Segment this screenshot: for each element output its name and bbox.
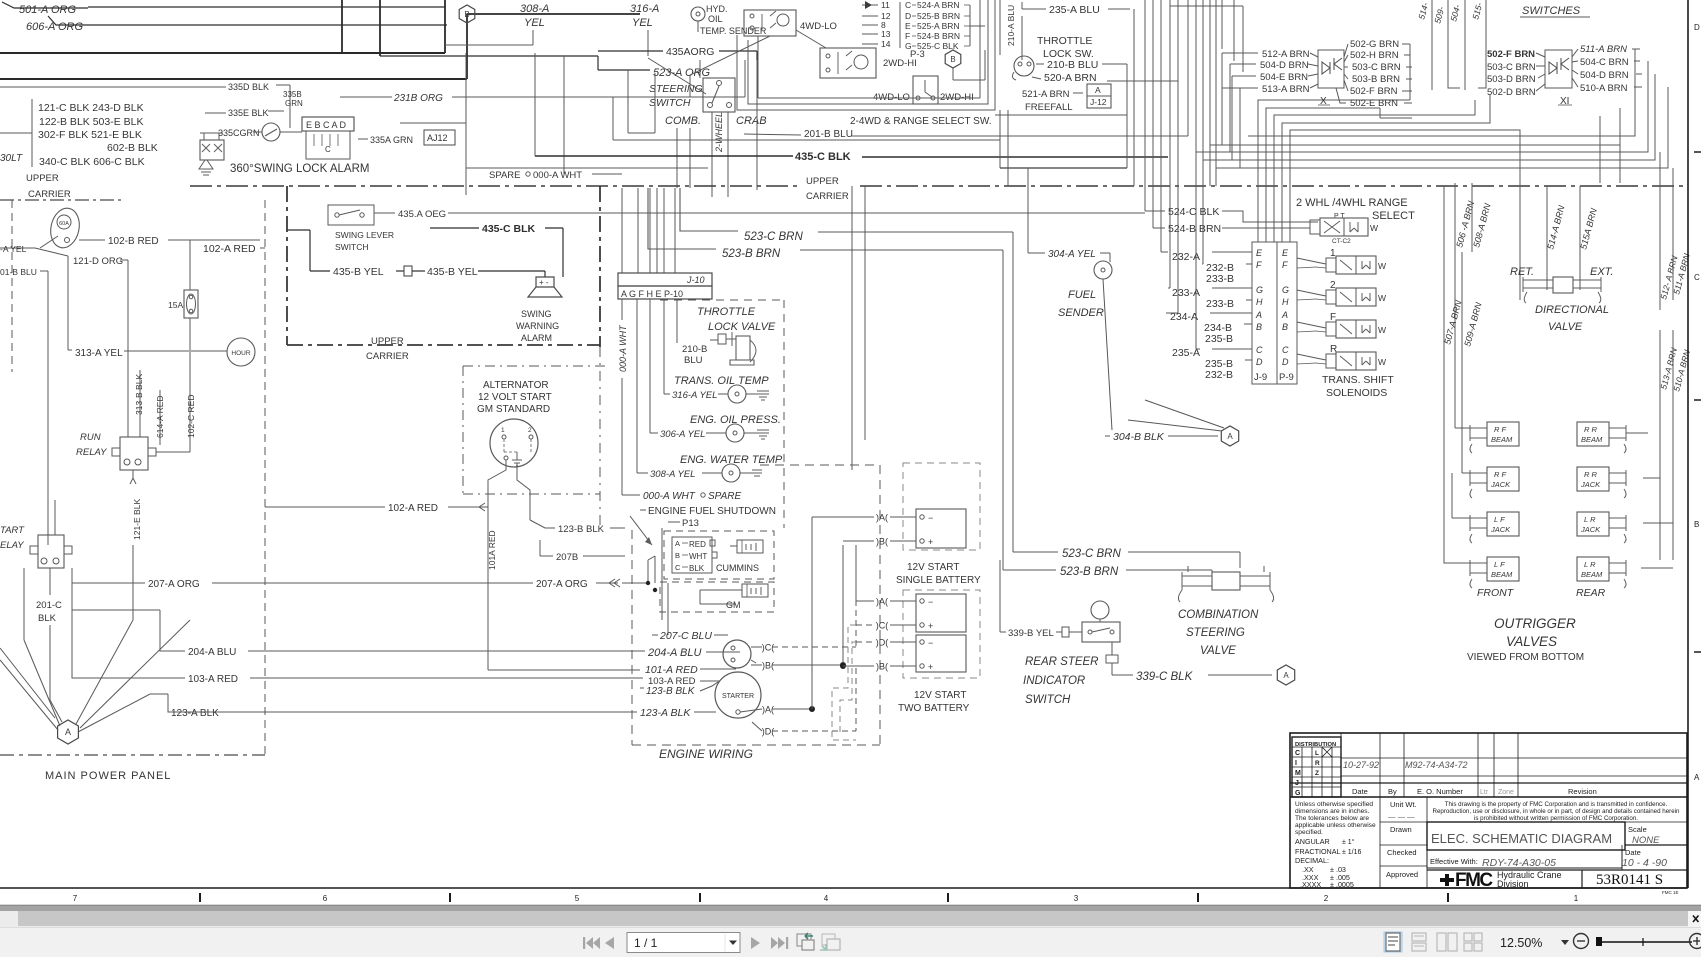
svg-text:J-10: J-10 (686, 275, 705, 285)
toolbar zoom out button (1574, 934, 1589, 949)
alarm speaker swing warning (528, 277, 562, 297)
connector GM dashed box (660, 582, 774, 612)
connector cummins pins (672, 537, 712, 573)
svg-text:304-A YEL: 304-A YEL (1048, 249, 1096, 260)
wire 123-A BLK left (78, 694, 168, 732)
svg-text:Drawn: Drawn (1390, 825, 1412, 834)
svg-text:is prohibited without written: is prohibited without written permission… (1474, 815, 1638, 822)
svg-text:UPPER: UPPER (806, 176, 839, 187)
wires outrigger feeds (1455, 427, 1470, 429)
sensor 308-A YEL (636, 299, 638, 473)
connector GM plug (742, 584, 768, 597)
horizontal scrollbar thumb (18, 911, 1688, 926)
svg-text:304-B BLK: 304-B BLK (1113, 431, 1165, 443)
svg-text:SOLENOIDS: SOLENOIDS (1326, 387, 1387, 399)
toolbar continuous view icon (1412, 933, 1426, 941)
svg-text:11: 11 (881, 0, 890, 10)
gauge circle 360 swing (262, 123, 280, 141)
svg-text:308-A: 308-A (520, 3, 549, 15)
svg-text:E: E (905, 21, 911, 31)
svg-text:JACK: JACK (1490, 525, 1511, 534)
wire bundle risers trans (1133, 9, 1135, 186)
svg-text:STARTER: STARTER (722, 693, 754, 700)
svg-text:W: W (1378, 261, 1386, 271)
label 339-C BLK (1112, 674, 1133, 676)
wire 523-B BRN mid (648, 188, 716, 249)
wire 4wd diagonal (796, 30, 826, 48)
svg-text:ELEC. SCHEMATIC DIAGRAM: ELEC. SCHEMATIC DIAGRAM (1431, 831, 1612, 846)
svg-text:P-9: P-9 (1279, 372, 1294, 383)
svg-text:210-B: 210-B (682, 344, 707, 355)
svg-text:121-C BLK 243-D BLK: 121-C BLK 243-D BLK (38, 102, 144, 114)
svg-text:510-A BRN: 510-A BRN (1580, 83, 1628, 94)
svg-text:G: G (1256, 285, 1263, 295)
wire engine to battery dashed (772, 646, 856, 648)
battery single dashed box (903, 463, 980, 550)
svg-text:± 1/16: ± 1/16 (1342, 849, 1362, 856)
wires cluster XI label ends (1632, 48, 1640, 50)
wires top risers switches (1431, 0, 1433, 90)
label 123-B BLK eng (640, 687, 644, 689)
outrigger LF BEAM (1487, 557, 1519, 581)
wires nested routing left of cluster X (1222, 52, 1258, 54)
svg-text:A: A (1255, 310, 1262, 320)
svg-text:123-B BLK: 123-B BLK (646, 686, 696, 697)
svg-text:103-A RED: 103-A RED (188, 674, 238, 685)
svg-text:602-B BLK: 602-B BLK (107, 142, 158, 154)
svg-text:The tolerances below are: The tolerances below are (1295, 815, 1369, 822)
svg-text:233-B: 233-B (1206, 273, 1234, 285)
svg-text:OUTRIGGER: OUTRIGGER (1494, 616, 1576, 631)
svg-text:CUMMINS: CUMMINS (716, 563, 759, 573)
wires upper right horizontals (1380, 117, 1412, 119)
connector A J-12 (1087, 84, 1111, 108)
horizontal scrollbar track (0, 911, 1701, 927)
svg-text:5: 5 (575, 894, 580, 903)
svg-text:Zone: Zone (1498, 789, 1514, 796)
wire bus upper2 (0, 78, 467, 80)
svg-text:HYD.: HYD. (706, 4, 728, 14)
toolbar clipboard icon faded (822, 934, 835, 945)
label 207-C BLU (652, 634, 658, 636)
wire vertical riser x467 (466, 14, 468, 79)
wire 506-A BRN vertical (1454, 183, 1456, 428)
svg-text:C: C (1256, 345, 1263, 355)
svg-text:BEAM: BEAM (1581, 435, 1603, 444)
svg-text:W: W (1378, 325, 1386, 335)
wire 606-A ORG (48, 16, 100, 25)
svg-text:D: D (1694, 23, 1700, 32)
wire 316-A YEL drop (647, 30, 649, 56)
svg-text:R R: R R (1584, 425, 1598, 434)
main power panel dashed box (11, 200, 13, 372)
wire 000-A WHT down (621, 299, 623, 320)
toolbar zoom slider (1596, 937, 1602, 946)
svg-text:BLU: BLU (684, 355, 703, 366)
wire 523-C BRN low (1013, 551, 1058, 553)
steering switch box (703, 78, 735, 112)
wires cluster XI leaders (1536, 53, 1545, 57)
ground 360 swing lock (199, 160, 213, 175)
svg-text:D: D (905, 11, 911, 21)
svg-text:B: B (1694, 520, 1699, 529)
label 101-A RED eng (488, 669, 640, 671)
svg-text:+: + (928, 621, 933, 631)
svg-text:D: D (1256, 357, 1263, 367)
wire 501-A ORG (2, 2, 88, 8)
svg-text:231B ORG: 231B ORG (393, 93, 443, 104)
svg-text:4WD-LO: 4WD-LO (800, 21, 837, 32)
svg-text:THROTTLE: THROTTLE (697, 306, 756, 318)
wire rear steer down (1111, 642, 1113, 655)
wire vertical riser x342 (341, 0, 343, 53)
svg-text:339-B YEL: 339-B YEL (1008, 628, 1054, 639)
svg-text:E: E (1282, 248, 1289, 258)
start relay box (38, 535, 64, 568)
svg-text:A: A (1227, 432, 1233, 441)
svg-text:BLK: BLK (38, 613, 57, 624)
svg-text:01-B BLU: 01-B BLU (0, 267, 37, 277)
svg-text:201-B BLU: 201-B BLU (804, 129, 853, 140)
outrigger RF BEAM (1487, 422, 1519, 446)
svg-text:By: By (1388, 787, 1397, 796)
svg-text:A G F H E P-10: A G F H E P-10 (621, 289, 683, 299)
svg-text:GM STANDARD: GM STANDARD (477, 404, 550, 415)
svg-text:SWITCH: SWITCH (335, 242, 369, 252)
wire 435-B vertical (309, 230, 311, 271)
svg-text:000-A WHT: 000-A WHT (618, 324, 628, 372)
wire hour meter drop (189, 352, 191, 440)
svg-text:2: 2 (528, 427, 532, 434)
svg-text:-A YEL: -A YEL (0, 244, 27, 254)
svg-text:+ -: + - (539, 278, 549, 287)
valve throttle lock (718, 334, 726, 344)
svg-text:102-C RED: 102-C RED (186, 395, 196, 438)
svg-text:This drawing is the property o: This drawing is the property of FMC Corp… (1445, 801, 1668, 808)
toolbar first page button (583, 937, 600, 949)
sensor 306-A YEL (649, 299, 651, 433)
svg-text:TRANS. SHIFT: TRANS. SHIFT (1322, 374, 1394, 386)
svg-text:360°SWING LOCK ALARM: 360°SWING LOCK ALARM (230, 163, 369, 175)
wires cluster X leaders (1310, 53, 1318, 57)
svg-text:503-C BRN: 503-C BRN (1487, 62, 1536, 73)
boundary chain page (190, 185, 800, 187)
svg-text:DECIMAL:: DECIMAL: (1295, 856, 1329, 865)
svg-text:A: A (675, 539, 680, 548)
svg-text:CARRIER: CARRIER (366, 351, 409, 362)
svg-text:TWO BATTERY: TWO BATTERY (898, 703, 970, 714)
svg-text:102-A RED: 102-A RED (388, 503, 438, 514)
svg-text:1 / 1: 1 / 1 (634, 936, 658, 950)
svg-text:RELAY: RELAY (76, 447, 107, 458)
wire 511-A BRN vertical right (1672, 168, 1674, 300)
label 524-B BRN (1153, 227, 1165, 229)
connector P-9 box (1277, 242, 1297, 384)
connector P-3 pins (862, 4, 878, 6)
svg-text:R F: R F (1494, 425, 1507, 434)
battery two dashed box (903, 590, 980, 678)
rear steer switch (1091, 601, 1109, 619)
svg-text:FREEFALL: FREEFALL (1025, 102, 1073, 113)
wire 101A RED down (487, 507, 489, 670)
outrigger RR JACK (1577, 467, 1609, 491)
splice 339-B (1062, 627, 1069, 637)
svg-text:ELAY: ELAY (0, 540, 24, 551)
svg-text:)B(: )B( (876, 662, 888, 672)
svg-text:30LT: 30LT (0, 153, 23, 164)
svg-text:2-WHEEL: 2-WHEEL (714, 112, 724, 153)
svg-text:204-A BLU: 204-A BLU (188, 647, 236, 658)
alternator circle (490, 419, 538, 467)
svg-text:232-B: 232-B (1205, 369, 1233, 381)
label ELEC SCHEMATIC DIAGRAM (1427, 822, 1625, 850)
svg-text:C: C (1282, 345, 1289, 355)
fuse 15A (184, 290, 198, 318)
svg-text:BLK: BLK (689, 564, 705, 573)
wire 523-C BRN mid (680, 188, 738, 231)
svg-text:Revision: Revision (1568, 787, 1597, 796)
svg-text:102-A RED: 102-A RED (203, 243, 256, 255)
svg-text:523-B BRN: 523-B BRN (722, 248, 781, 260)
solenoid cluster X diodes (1318, 50, 1344, 88)
svg-text:B: B (950, 55, 955, 64)
toolbar facing view icon (1437, 933, 1446, 951)
svg-text:233-B: 233-B (1206, 298, 1234, 310)
svg-text:13: 13 (881, 29, 891, 39)
svg-text:504-D BRN: 504-D BRN (1580, 70, 1629, 81)
svg-text:dimensions are in inches.: dimensions are in inches. (1295, 808, 1370, 815)
svg-text:G: G (1295, 790, 1301, 797)
wire start relay stub (47, 530, 49, 535)
svg-text:RED: RED (689, 540, 706, 549)
svg-text:± 1°: ± 1° (1342, 838, 1355, 846)
svg-text:F: F (905, 31, 910, 41)
svg-text:L R: L R (1584, 515, 1596, 524)
wire 210-A BLU (999, 0, 1001, 55)
svg-text:A: A (65, 727, 71, 737)
svg-text:BEAM: BEAM (1581, 570, 1603, 579)
toolbar zoom in button (1690, 934, 1701, 949)
svg-text:313-B BLK: 313-B BLK (134, 374, 144, 415)
svg-text:F: F (1282, 260, 1288, 270)
svg-text:C: C (905, 0, 911, 10)
scrollbar right button x (1688, 911, 1701, 927)
svg-text:A: A (1283, 671, 1289, 680)
switch 4WD-LO box (744, 10, 796, 36)
viewport bottom shadow band (0, 906, 1701, 911)
wire swing lever run (452, 212, 1145, 214)
label 524-C BLK (1145, 210, 1165, 212)
svg-text:L F: L F (1494, 560, 1505, 569)
wire 308-A YEL drop (532, 30, 534, 45)
svg-text:ENGINE FUEL SHUTDOWN: ENGINE FUEL SHUTDOWN (648, 506, 776, 517)
svg-text:ENGINE WIRING: ENGINE WIRING (659, 747, 753, 761)
svg-text:I: I (1295, 760, 1297, 767)
svg-text:15A: 15A (168, 300, 183, 310)
connector J-9 box (1252, 242, 1277, 384)
border bottom ruler (0, 887, 1687, 889)
svg-text:−: − (928, 513, 933, 523)
svg-text:207-C BLU: 207-C BLU (659, 630, 712, 642)
outrigger RR BEAM (1577, 422, 1609, 446)
svg-text:M92-74-A34-72: M92-74-A34-72 (1405, 760, 1468, 770)
svg-text:F: F (1330, 312, 1336, 323)
svg-text:SPARE: SPARE (489, 170, 521, 181)
svg-text:335D BLK: 335D BLK (228, 82, 269, 92)
svg-text:INDICATOR: INDICATOR (1023, 675, 1085, 687)
toolbar next page button (751, 937, 760, 949)
svg-text:H: H (1282, 297, 1289, 307)
svg-text:524-A BRN: 524-A BRN (917, 0, 960, 10)
svg-text:W: W (1378, 293, 1386, 303)
wire 335C GRN (205, 132, 216, 134)
svg-text:207-A ORG: 207-A ORG (536, 579, 588, 590)
wire 339-B vertical (999, 560, 1001, 632)
wire gauge to connector (280, 131, 302, 133)
wires steering area risers (465, 53, 467, 195)
svg-text:Scale: Scale (1628, 825, 1647, 834)
svg-text:BEAM: BEAM (1491, 570, 1513, 579)
svg-text:CRAB: CRAB (736, 115, 767, 127)
wire 313-A YEL left leader (0, 247, 35, 249)
svg-text:2-4WD & RANGE SELECT SW.: 2-4WD & RANGE SELECT SW. (850, 116, 992, 127)
svg-text:Z: Z (1315, 770, 1319, 777)
svg-text:specified.: specified. (1295, 829, 1323, 836)
solenoid cluster XI diodes (1545, 50, 1572, 88)
svg-text:VALVES: VALVES (1506, 634, 1557, 649)
svg-text:Ltr: Ltr (1480, 789, 1489, 796)
wire riser bundle engine (647, 560, 649, 583)
svg-text:313-A YEL: 313-A YEL (75, 348, 123, 359)
svg-text:C: C (1295, 750, 1300, 757)
connector cummins dashed box (664, 531, 774, 579)
label 304-B BLK (1105, 435, 1110, 437)
wire 201-C BLK (49, 568, 51, 595)
outrigger LR BEAM (1577, 557, 1609, 581)
svg-text:000-A WHT: 000-A WHT (533, 170, 582, 181)
svg-text:12V START: 12V START (907, 562, 959, 573)
ground alternator (512, 452, 522, 466)
wire 523-A ORG (598, 69, 650, 71)
outrigger LF JACK (1487, 512, 1519, 536)
svg-text:— — —: — — — (1388, 812, 1415, 821)
svg-text:COMB.: COMB. (665, 115, 701, 127)
boundary chain mid bold (286, 186, 288, 345)
svg-text:AJ12: AJ12 (427, 133, 448, 143)
svg-text:)A(: )A( (876, 513, 888, 523)
wire battery dashed L (832, 625, 856, 740)
svg-text:1: 1 (1574, 894, 1579, 903)
wire bus upper1 (0, 52, 445, 54)
wire 204-A BLU left (71, 583, 73, 610)
svg-text:10-27-92: 10-27-92 (1343, 760, 1379, 770)
svg-text:SELECT: SELECT (1372, 210, 1415, 222)
wire J-10 risers (621, 188, 623, 273)
resistor rear steer (1106, 655, 1118, 663)
svg-text:521-A BRN: 521-A BRN (1022, 89, 1070, 100)
wire 510-A BRN vertical right (1672, 330, 1674, 560)
svg-text:308-A YEL: 308-A YEL (650, 469, 695, 480)
svg-text:−: − (928, 638, 933, 648)
svg-text:FUEL: FUEL (1068, 289, 1096, 301)
svg-text:G: G (1282, 285, 1289, 295)
svg-text:SWITCH: SWITCH (1025, 694, 1071, 706)
svg-text:+: + (928, 537, 933, 547)
svg-text:ALARM: ALARM (521, 333, 552, 343)
svg-text:4: 4 (824, 894, 829, 903)
node B hex 2 (945, 50, 961, 68)
splice 435-B (404, 266, 412, 276)
wire 210-B BLU (1036, 63, 1044, 65)
svg-text:Effective With:: Effective With: (1430, 857, 1478, 866)
wire 435-B YEL (310, 270, 330, 272)
svg-text:THROTTLE: THROTTLE (1037, 35, 1092, 47)
svg-text:TEMP. SENDER: TEMP. SENDER (700, 26, 767, 36)
svg-text:Checked: Checked (1387, 848, 1417, 857)
fuel sender circle (1094, 261, 1112, 279)
wire fuel sender down (1103, 279, 1112, 430)
relay 360 swing lock (200, 140, 224, 160)
wire run relay right (156, 451, 190, 453)
svg-text:L: L (1315, 750, 1319, 757)
wire 335D BLK (0, 86, 226, 88)
svg-text:A: A (1281, 310, 1288, 320)
svg-text:502-G BRN: 502-G BRN (1350, 39, 1399, 50)
svg-text:207B: 207B (556, 552, 578, 563)
battery two lower box (916, 635, 966, 672)
svg-text:JACK: JACK (1580, 525, 1601, 534)
svg-text:302-F BLK 521-E BLK: 302-F BLK 521-E BLK (38, 129, 142, 141)
distribution table (1292, 737, 1341, 797)
wires converging node A mid (1128, 420, 1222, 431)
engine wiring dashed box (631, 530, 633, 745)
connector EBCAD box (302, 117, 354, 131)
svg-text:60A: 60A (59, 221, 69, 227)
svg-text:335E BLK: 335E BLK (228, 108, 269, 118)
svg-text:YEL: YEL (632, 17, 653, 29)
svg-text:502-F BRN: 502-F BRN (1350, 86, 1398, 97)
svg-text:504-D BRN: 504-D BRN (1260, 60, 1309, 71)
svg-text:CT-C2: CT-C2 (1332, 238, 1351, 245)
svg-text:2 WHL /4WHL RANGE: 2 WHL /4WHL RANGE (1296, 197, 1408, 209)
svg-text:523-C BRN: 523-C BRN (744, 231, 803, 243)
svg-text:HOUR: HOUR (231, 350, 250, 357)
wire 515A BRN vertical (1579, 186, 1581, 290)
wire 207-A ORG mid (596, 582, 618, 584)
svg-text:+: + (928, 662, 933, 672)
toolbar background (0, 927, 1701, 957)
wires 232 leaders (1161, 251, 1168, 253)
svg-text:FRACTIONAL: FRACTIONAL (1295, 847, 1341, 856)
svg-text:503-C BRN: 503-C BRN (1352, 62, 1401, 73)
svg-text:BEAM: BEAM (1491, 435, 1513, 444)
svg-text:M: M (1295, 770, 1301, 777)
svg-text:R R: R R (1584, 470, 1598, 479)
box 4wd section (737, 0, 995, 110)
wire 514-A BRN vertical (1546, 186, 1548, 290)
svg-text:523-C BRN: 523-C BRN (1062, 548, 1121, 560)
wire left verticals panel (67, 256, 69, 345)
svg-text:101-A RED: 101-A RED (645, 664, 698, 676)
svg-text:Date: Date (1352, 787, 1368, 796)
svg-text:435-C BLK: 435-C BLK (482, 223, 536, 235)
svg-text:P-3: P-3 (910, 49, 925, 60)
svg-text:525-A BRN: 525-A BRN (917, 21, 960, 31)
arrow fuel shutdown (630, 516, 652, 545)
wire 335A GRN (358, 138, 368, 140)
svg-text:A: A (1095, 85, 1101, 95)
svg-text:VALVE: VALVE (1200, 645, 1236, 657)
